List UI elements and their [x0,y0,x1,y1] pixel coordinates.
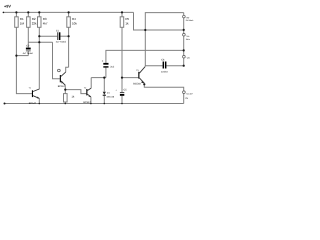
junction C5/ground [121,103,123,105]
svg-text:22n/63: 22n/63 [161,70,168,73]
transistor T1 BC547 [32,89,40,98]
wire terminal column vertical [183,13,185,66]
resistor R6 [64,94,68,102]
junction R3/rail [38,11,40,13]
wire R6 bottom stub [64,102,66,104]
junction T3 emitter corner [143,83,145,85]
wire node to PNP base horizontal [28,41,52,43]
junction PNP emitter node [64,89,66,91]
transistor T3 BC548 (right) [138,66,145,83]
junction +9V column [144,29,146,31]
wire rail jog down right [134,12,184,30]
wire R2 bottom to C2 [27,27,29,47]
svg-text:9V Block: 9V Block [186,19,194,22]
capacitor C6 [163,62,167,69]
wire C6 right lead [166,65,183,67]
wire C4 top lead to output line [106,50,184,63]
svg-text:Ua 2V: Ua 2V [187,92,194,95]
capacitor C4 [103,63,108,68]
junction C1 right/R4 line [68,35,70,37]
wire R2 top stub [27,12,29,16]
wire T3 collector up [90,78,92,89]
resistor R4 [67,17,71,28]
wire C4 bottom lead [105,68,107,78]
wire D1 cathode lead [103,96,105,104]
wire C1 left lead [39,35,57,37]
svg-text:1kHz: 1kHz [186,38,190,41]
svg-text:22k: 22k [32,21,37,25]
junction D1/ground [104,103,106,105]
wire R1 bottom down to T1 base [16,27,32,93]
svg-text:+9V: +9V [4,5,11,9]
wire T2 collector node to C6 [145,65,162,67]
node output terminal bottom [183,91,186,94]
transistor PNP BC557 [58,69,66,85]
wire jog to PNP collector [66,67,69,72]
wire T1 emitter down [38,98,40,103]
junction C1 left/collector line [38,35,40,37]
svg-text:2u2: 2u2 [110,65,115,68]
junction rail start [3,12,5,14]
resistor R3 [38,17,42,28]
wire T3 emitter down [90,97,92,104]
junction Ue wire/terminal column [183,29,185,31]
junction R1/rail [15,11,17,13]
wire T2 base horizontal [122,77,138,79]
wire R5 bottom down to C5 [121,27,123,92]
wire +9V top rail [3,11,134,13]
wire D1 anode lead [103,78,105,92]
wire PNP base vertical [53,42,60,79]
junction C6 wire/terminal column [183,65,185,67]
junction output wire/terminal column [183,49,185,51]
wire R3 top stub [38,12,40,16]
junction D1/C4 node [103,77,105,79]
junction R6/ground [65,103,67,105]
wire R3 bottom down to T1 collector [38,27,40,89]
node +9V terminal [183,15,186,18]
svg-text:4u7 Tantal: 4u7 Tantal [23,52,34,55]
node Ue terminal [183,33,186,36]
junction C2 return/R1 line [15,55,17,57]
wire +9V branch to terminal column [145,13,183,66]
wire C5 bottom lead [121,96,123,104]
wire C2 bottom lead [27,51,29,55]
junction R2/rail [27,11,29,13]
svg-text:BC548: BC548 [133,83,141,86]
wire terminal to ground corner [183,94,185,104]
svg-text:4u7 Tantal: 4u7 Tantal [56,41,67,44]
svg-text:1N4148: 1N4148 [106,95,114,98]
junction T2 emitter/ground [90,103,92,105]
svg-text:BC547: BC547 [83,101,91,104]
transistor T2 BC547 (middle) [86,88,91,97]
resistor R5 [120,17,124,28]
wire R4 top stub [68,12,70,16]
resistor R2 [27,17,31,28]
junction input net crossing [38,41,40,43]
svg-text:+: + [102,59,104,63]
wire C4 bottom node horizontal [91,77,106,79]
junction R4/rail [68,11,70,13]
svg-text:BC557: BC557 [58,85,66,88]
junction ground rail start [4,103,6,105]
junction T3 base/R5 line [121,77,123,79]
svg-text:10k: 10k [72,21,77,25]
wire C2 bottom stub [16,55,28,57]
svg-text:4k7: 4k7 [43,21,48,25]
capacitor C2 [26,48,31,51]
wire ground rail [4,103,183,105]
wire C1 right lead [60,35,68,37]
wire PNP emitter down to R6 [64,85,66,93]
resistor R1 [15,17,19,28]
wire R5 top stub [121,12,123,16]
junction R5/rail [121,11,123,13]
svg-text:1M: 1M [20,21,25,25]
diode D1 [103,92,106,96]
capacitor C1 [58,32,61,40]
wire emitter node to T3 base [65,90,86,94]
junction T1 emitter/ground [39,103,41,105]
svg-text:1k: 1k [125,21,129,25]
wire R1 top stub [15,12,17,16]
wire T2 emitter to output terminal [144,83,183,91]
node Ua terminal [183,55,186,58]
svg-text:BC547: BC547 [29,102,37,105]
capacitor C5 [120,93,124,96]
wire R4 bottom down [68,27,70,67]
terminal circles [183,15,186,93]
